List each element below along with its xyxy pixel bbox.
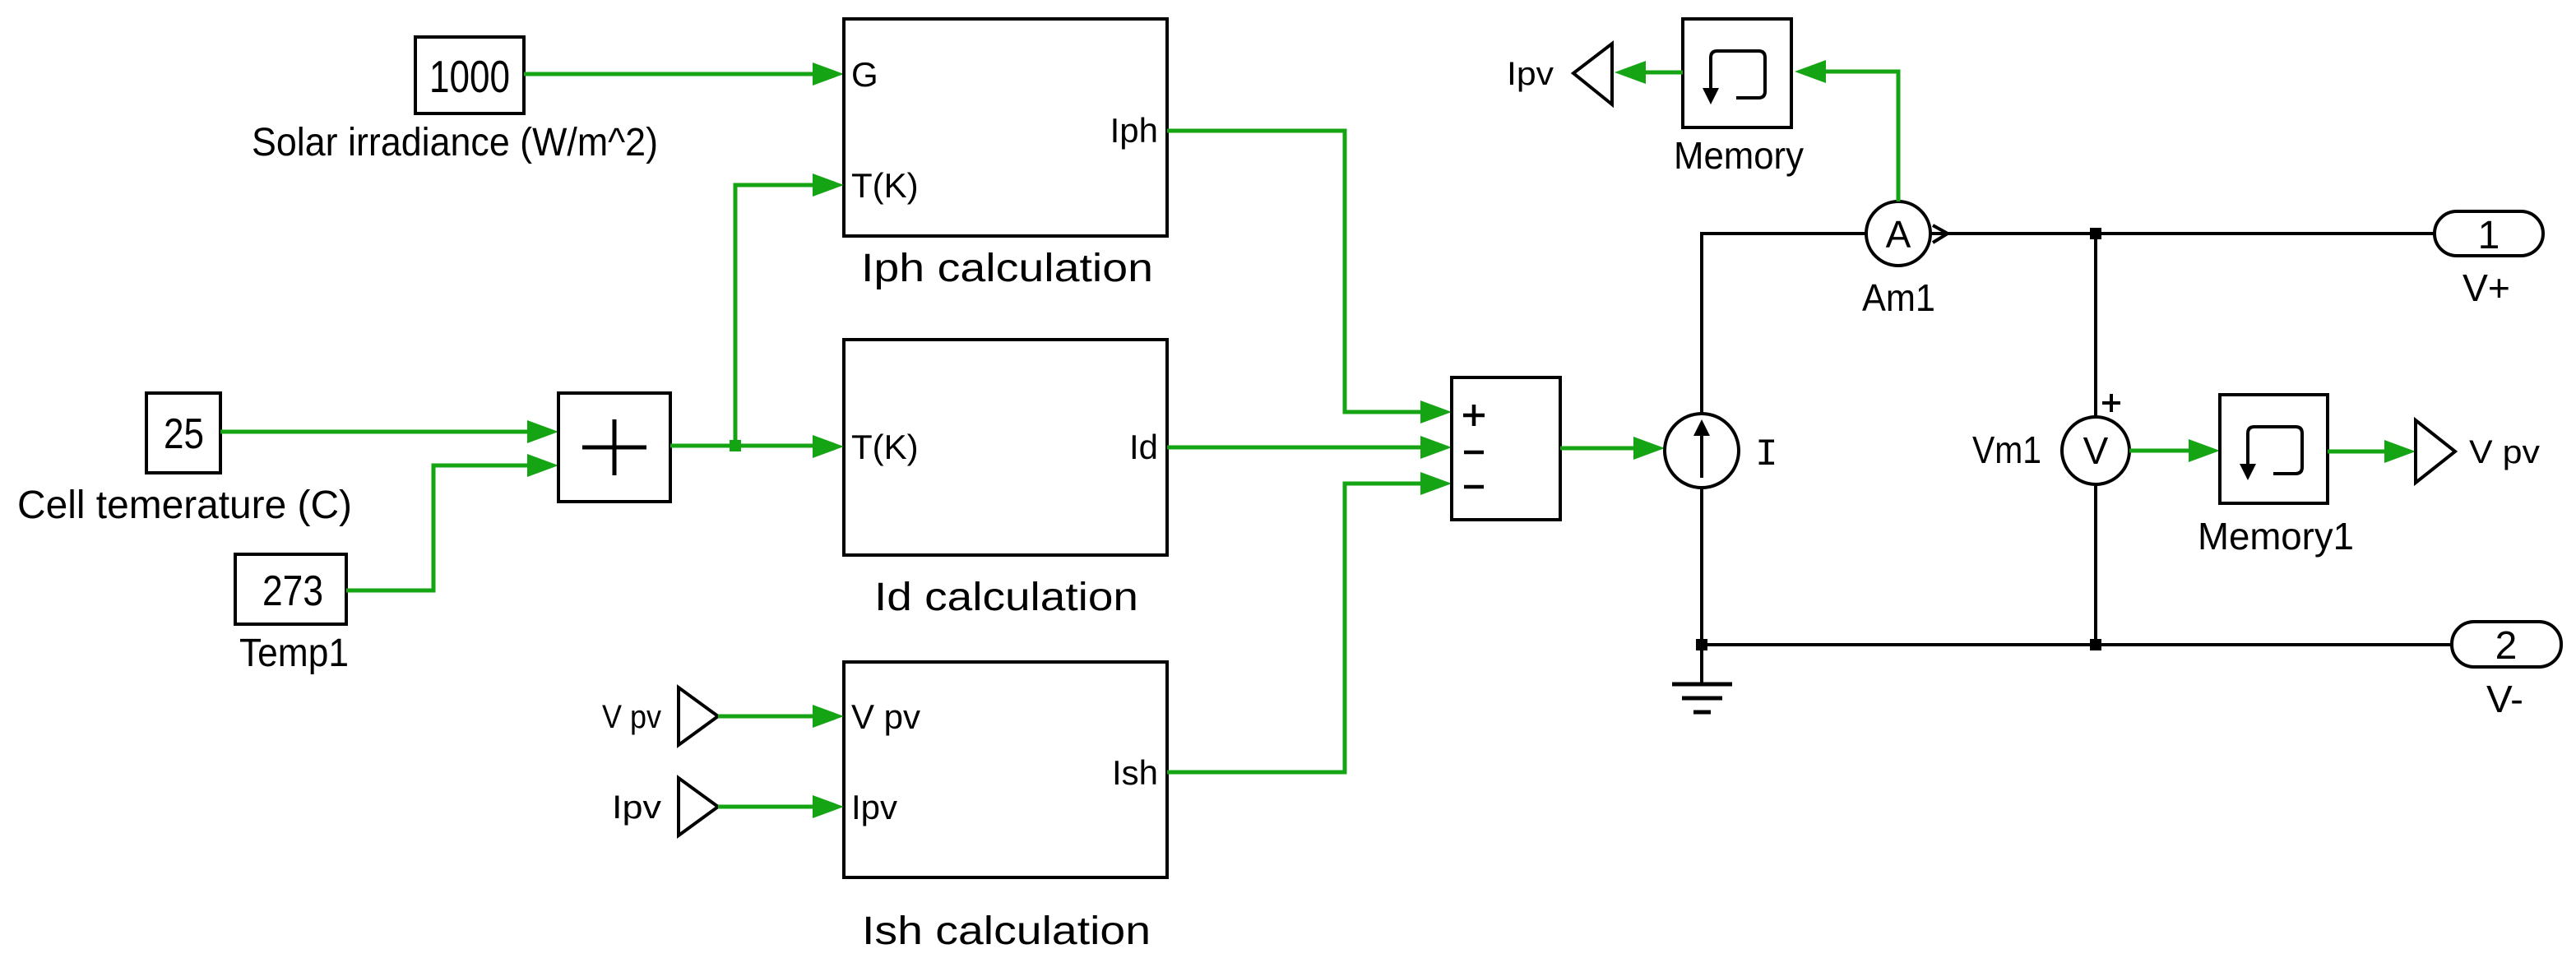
svg-text:Id calculation: Id calculation: [874, 576, 1138, 619]
wire Ish output to sum input 3: [1167, 472, 1452, 772]
svg-text:V pv: V pv: [851, 697, 920, 736]
svg-text:I: I: [1755, 433, 1778, 476]
Memory block: [1683, 19, 1791, 127]
svg-text:Iph: Iph: [1110, 111, 1158, 150]
junction node V+ rail: [2090, 228, 2101, 239]
junction node ground: [1696, 639, 1707, 650]
wire Iph output to sum input 1: [1167, 131, 1452, 424]
wire Ipv from-tag to Ish: [718, 795, 844, 818]
svg-text:V-: V-: [2486, 678, 2523, 720]
wire current source top to ammeter: [1700, 235, 1703, 414]
svg-text:Vm1: Vm1: [1972, 428, 2041, 471]
wire Memory to Ipv goto: [1615, 61, 1683, 84]
wire 273 to sum: [346, 454, 558, 590]
svg-text:1000: 1000: [429, 51, 510, 102]
wire 25 to sum: [220, 420, 558, 443]
svg-text:Temp1: Temp1: [239, 632, 349, 675]
svg-text:2: 2: [2495, 624, 2518, 668]
wire Id output to sum input 2: [1167, 436, 1452, 459]
sum block (+): [558, 393, 670, 502]
wire ammeter to port 1: [1930, 225, 2435, 243]
wire sum2 output to current source: [1560, 437, 1665, 460]
subsystem Ish calculation: [844, 662, 1167, 877]
svg-text:A: A: [1886, 213, 1911, 256]
Memory1 block: [2220, 395, 2328, 503]
svg-text:Iph calculation: Iph calculation: [861, 247, 1153, 290]
svg-text:T(K): T(K): [851, 428, 919, 466]
constant block 1000: [415, 37, 524, 113]
svg-text:Ish calculation: Ish calculation: [862, 910, 1151, 953]
svg-text:G: G: [851, 55, 878, 94]
svg-text:Am1: Am1: [1862, 276, 1935, 319]
voltmeter Vm1: [2062, 394, 2129, 484]
svg-text:V pv: V pv: [602, 699, 661, 735]
bottom node wire: [1696, 639, 2452, 650]
svg-text:Memory: Memory: [1674, 134, 1804, 177]
goto tag Ipv (top): [1507, 44, 1612, 104]
from tag Vpv (left): [602, 687, 718, 745]
goto tag Vpv (right): [2416, 420, 2540, 483]
junction node V- rail: [2090, 639, 2101, 650]
svg-text:273: 273: [262, 567, 323, 615]
wire voltmeter to Memory1: [2129, 439, 2220, 462]
wire Vpv from-tag to Ish: [718, 705, 844, 728]
constant block 273: [235, 554, 346, 624]
wire voltmeter top: [2094, 234, 2097, 417]
port 1: [2435, 211, 2543, 257]
svg-text:Solar irradiance (W/m^2): Solar irradiance (W/m^2): [252, 121, 658, 164]
wire 1000 to G: [524, 62, 844, 86]
svg-text:V+: V+: [2462, 266, 2510, 309]
svg-text:Ish: Ish: [1112, 753, 1158, 792]
svg-text:25: 25: [164, 410, 204, 458]
port 2: [2452, 622, 2561, 668]
current source I: [1665, 414, 1778, 488]
ground: [1672, 646, 1732, 712]
constant block 25: [146, 393, 220, 473]
svg-text:Ipv: Ipv: [612, 789, 661, 826]
svg-text:T(K): T(K): [851, 166, 919, 205]
wire Memory1 to Vpv goto: [2328, 440, 2416, 463]
svg-text:Ipv: Ipv: [1507, 56, 1554, 92]
wire voltmeter bottom: [2094, 484, 2097, 646]
subsystem Iph calculation: [844, 19, 1167, 236]
ammeter Am1: [1866, 201, 1930, 266]
sum2 block (+ - -): [1452, 377, 1560, 520]
svg-text:Cell temerature (C): Cell temerature (C): [17, 484, 352, 527]
svg-text:Memory1: Memory1: [2198, 515, 2354, 558]
wire sum output to T(K) inputs: [670, 174, 844, 458]
subsystem Id calculation: [844, 340, 1167, 555]
svg-text:1: 1: [2478, 214, 2500, 257]
svg-text:Id: Id: [1129, 428, 1158, 466]
svg-text:V: V: [2083, 429, 2109, 472]
wire ammeter measurement to Memory: [1795, 60, 1898, 201]
junction node T(K) split: [730, 440, 741, 451]
svg-text:V pv: V pv: [2469, 434, 2540, 470]
from tag Ipv (left): [612, 778, 718, 835]
svg-text:Ipv: Ipv: [851, 788, 897, 826]
wire current source bottom: [1700, 488, 1703, 646]
